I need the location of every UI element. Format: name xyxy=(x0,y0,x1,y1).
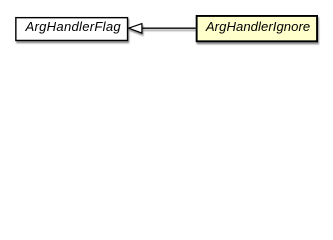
svg-text:ArgHandlerIgnore: ArgHandlerIgnore xyxy=(205,19,310,34)
generalization arrowhead xyxy=(129,24,142,33)
class box ArgHandlerIgnore xyxy=(197,16,317,41)
svg-text:ArgHandlerFlag: ArgHandlerFlag xyxy=(25,19,122,34)
generalization wire xyxy=(142,28,196,29)
class box ArgHandlerFlag xyxy=(16,18,128,41)
